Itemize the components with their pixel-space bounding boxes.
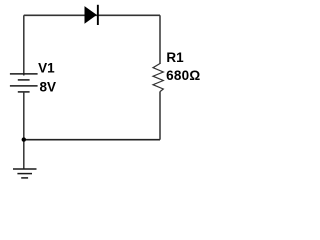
battery V1 <box>10 74 38 92</box>
wire right vertical (resistor to bottom) <box>159 92 161 140</box>
diode D1 <box>85 5 99 25</box>
wire top horizontal <box>24 14 160 16</box>
svg-text:680Ω: 680Ω <box>166 68 200 83</box>
wire left vertical (top, to battery) <box>23 15 25 75</box>
svg-text:V1: V1 <box>38 60 55 75</box>
svg-text:8V: 8V <box>40 80 57 95</box>
wire right vertical (top, to resistor) <box>159 15 161 64</box>
node junction dot <box>22 137 26 141</box>
wire left vertical (battery to ground through junction) <box>23 92 25 169</box>
ground <box>13 169 37 178</box>
resistor R1 <box>153 64 163 92</box>
wire bottom horizontal <box>24 139 160 141</box>
svg-text:R1: R1 <box>166 50 184 65</box>
